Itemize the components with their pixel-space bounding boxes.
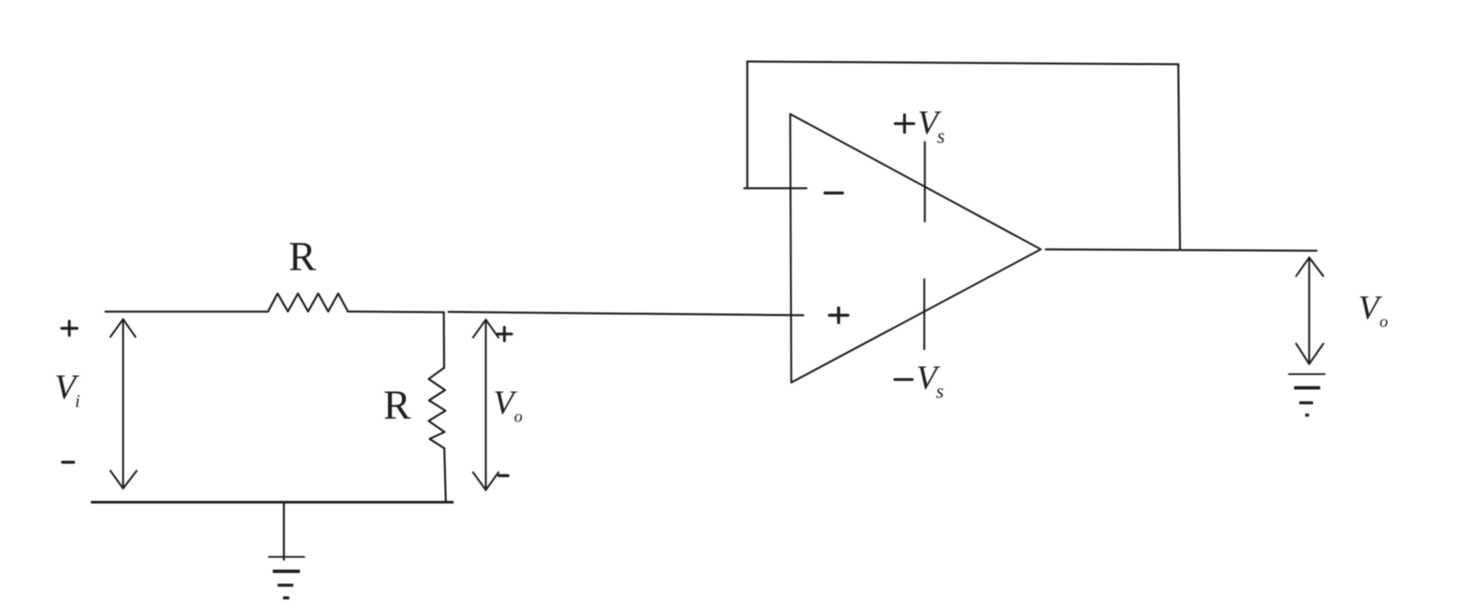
label - input (op-amp) xyxy=(825,192,843,195)
wire feedback right vertical xyxy=(1178,64,1180,249)
svg-text:s: s xyxy=(936,381,944,403)
wire bottom rail xyxy=(92,501,453,504)
svg-text:R: R xyxy=(383,381,411,427)
resistor R2 (shunt) xyxy=(429,368,446,449)
svg-text:o: o xyxy=(514,407,523,426)
wire op-amp output xyxy=(1046,249,1317,250)
power -Vs pin xyxy=(923,279,925,349)
label +Vs xyxy=(895,104,945,148)
wire R2 to bottom rail xyxy=(444,448,446,502)
power +Vs pin xyxy=(924,142,926,222)
wire input top left xyxy=(106,311,269,313)
label + (Vi) xyxy=(62,321,77,335)
label -Vs xyxy=(895,360,944,404)
wire feedback top xyxy=(747,62,1178,65)
voltage arrow Vo (output) xyxy=(1296,258,1323,365)
wire divider node to op-amp + input xyxy=(449,312,804,315)
svg-text:i: i xyxy=(75,391,80,411)
voltage arrow Vo (divider) xyxy=(473,320,499,490)
label + input (op-amp) xyxy=(829,308,848,323)
ground (right) xyxy=(1288,374,1325,415)
svg-text:o: o xyxy=(1380,312,1389,331)
resistor R1 (series) xyxy=(268,294,348,312)
ground (left) xyxy=(268,502,305,598)
wire R1 to divider node xyxy=(348,311,444,314)
wire feedback left vertical xyxy=(746,62,748,189)
op-amp U1 xyxy=(790,114,1041,383)
wire node down to R2 xyxy=(443,312,445,368)
wire inverting input stub xyxy=(744,187,806,189)
label - (Vi) xyxy=(63,461,74,464)
svg-text:R: R xyxy=(289,233,317,279)
voltage arrow Vi xyxy=(110,319,136,488)
label - (Vo divider) xyxy=(499,474,508,477)
svg-text:s: s xyxy=(937,126,945,148)
label + (Vo divider) xyxy=(497,327,511,340)
